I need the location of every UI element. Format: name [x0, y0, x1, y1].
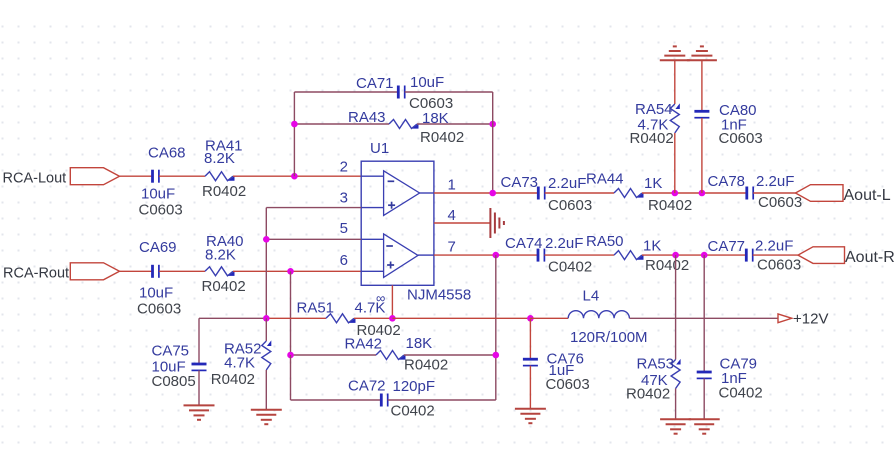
junction RA43 left [291, 121, 298, 128]
junction RA42 right [493, 352, 500, 359]
wire CA79 stem lower [703, 378, 705, 419]
wire pin1 stub inside U1 [420, 192, 434, 194]
svg-text:120R/100M: 120R/100M [570, 329, 648, 346]
ground below RA53 [660, 419, 691, 433]
svg-text:R0402: R0402 [202, 278, 246, 295]
capacitor CA71 [398, 86, 404, 99]
wire pin1 to CA73 [434, 192, 538, 194]
resistor RA54 [670, 103, 680, 133]
wire RA44 to CA78 [642, 192, 747, 194]
op-amp U1 triangle A [384, 171, 420, 216]
svg-text:1K: 1K [643, 237, 661, 254]
svg-text:10uF: 10uF [141, 186, 175, 203]
junction pin6 node [287, 268, 294, 275]
ground above CA80 [687, 46, 717, 60]
wire CA72 row right [388, 399, 496, 401]
svg-text:R0402: R0402 [404, 357, 448, 374]
junction pin7 feedback [493, 252, 500, 259]
wire RA52 bottom [265, 370, 267, 410]
wire CA74 to RA50 [544, 254, 614, 256]
svg-text:C0603: C0603 [139, 202, 183, 219]
capacitor CA75 [192, 364, 207, 370]
wire CA73 to RA44 [545, 192, 614, 194]
svg-text:120pF: 120pF [393, 378, 436, 395]
svg-text:C0402: C0402 [548, 259, 592, 276]
junction pin2 node [291, 173, 298, 180]
junction CA79 node [701, 252, 708, 259]
wire pin7 feedback vertical [495, 255, 497, 400]
svg-text:C0402: C0402 [391, 403, 435, 420]
ground at pin4 [490, 208, 504, 238]
svg-text:U1: U1 [370, 140, 389, 157]
capacitor CA69 [153, 265, 159, 278]
svg-text:R0402: R0402 [357, 322, 401, 339]
svg-text:R0402: R0402 [648, 197, 692, 214]
wire CA80 stem upper [701, 60, 703, 111]
wire rail to CA76 node [392, 317, 530, 319]
wire RA52 top [265, 318, 267, 341]
svg-text:4.7K: 4.7K [355, 300, 386, 317]
wire CA71 top left [294, 91, 398, 93]
junction pin3/5 bias node [263, 315, 270, 322]
wire CA79 stem upper [703, 255, 705, 372]
svg-text:CA74: CA74 [505, 235, 543, 252]
svg-text:RA50: RA50 [586, 233, 624, 250]
svg-text:C0603: C0603 [548, 197, 592, 214]
svg-text:CA72: CA72 [348, 378, 386, 395]
junction pin5 node [263, 236, 270, 243]
wire node to U1 pin6 [291, 270, 362, 272]
svg-text:Aout-L: Aout-L [844, 187, 891, 204]
svg-text:Aout-R: Aout-R [845, 249, 894, 266]
svg-text:R0402: R0402 [626, 386, 670, 403]
capacitor CA73 [538, 187, 544, 200]
junction RA43 right [489, 121, 496, 128]
wire RA42 row left [291, 354, 377, 356]
port RCA-Rout [70, 263, 119, 280]
resistor RA51 [326, 314, 356, 323]
capacitor CA78 [747, 187, 753, 200]
svg-text:8.2K: 8.2K [205, 247, 236, 264]
wire CA71 top right [405, 91, 493, 93]
svg-text:NJM4558: NJM4558 [407, 287, 471, 304]
wire pin4 to ground [434, 222, 491, 224]
svg-text:C0603: C0603 [758, 194, 802, 211]
wire rail to RA51 [266, 317, 326, 319]
svg-text:1: 1 [448, 177, 456, 194]
wire left vertical of feedback loop [293, 92, 295, 176]
svg-text:10uF: 10uF [139, 285, 173, 302]
svg-text:C0603: C0603 [137, 301, 181, 318]
wire pin8 down to rail [391, 285, 393, 318]
svg-text:CA78: CA78 [708, 173, 746, 190]
svg-text:2.2uF: 2.2uF [755, 238, 793, 255]
wire CA77 to Aout-R [753, 254, 798, 256]
svg-text:2.2uF: 2.2uF [756, 173, 794, 190]
port Aout-R [798, 247, 845, 264]
svg-text:CA71: CA71 [356, 75, 394, 92]
svg-text:10uF: 10uF [410, 74, 444, 91]
svg-text:7: 7 [448, 239, 456, 256]
junction CA76 node [527, 315, 534, 322]
wire right vertical of feedback loop [492, 92, 494, 193]
svg-text:2.2uF: 2.2uF [548, 175, 586, 192]
ground below CA75 [184, 405, 215, 419]
junction RA53 node [672, 252, 679, 259]
svg-text:R0402: R0402 [630, 130, 674, 147]
svg-text:RA51: RA51 [297, 300, 335, 317]
svg-text:C0603: C0603 [719, 130, 763, 147]
wire RA50 to CA77 [642, 254, 746, 256]
resistor RA41 [205, 172, 235, 181]
svg-text:C0402: C0402 [719, 385, 763, 402]
ground below CA79 [689, 419, 720, 433]
svg-text:R0402: R0402 [202, 183, 246, 200]
wire CA72 row left [291, 399, 382, 401]
wire RCA-Rout to CA69 [120, 270, 153, 272]
resistor RA42 [376, 351, 406, 360]
wire RA54 stem upper [674, 60, 676, 104]
svg-text:C0805: C0805 [152, 373, 196, 390]
ground below RA52 [251, 410, 282, 424]
power arrow +12V [778, 314, 792, 323]
capacitor CA79 [697, 372, 712, 378]
wire pin6 loop vertical [290, 355, 292, 400]
svg-text:3: 3 [340, 190, 348, 207]
capacitor CA68 [153, 170, 159, 183]
wire pin5 stub inside U1 [361, 238, 383, 240]
wire L4 to +12V arrow [629, 317, 778, 319]
resistor RA52 [262, 340, 272, 370]
ground below CA76 [515, 409, 546, 423]
wire RA43 row left [294, 123, 389, 125]
wire pin6 vertical down [290, 271, 292, 355]
wire RA54 stem lower [674, 133, 676, 193]
wire pin3 to left [266, 207, 361, 209]
svg-text:CA73: CA73 [501, 174, 539, 191]
ground above RA54 [660, 46, 690, 60]
wire RA40 to node [233, 270, 291, 272]
capacitor CA72 [381, 394, 387, 407]
svg-text:CA75: CA75 [152, 343, 190, 360]
wire pin7 stub inside U1 [418, 254, 434, 256]
svg-text:R0402: R0402 [645, 257, 689, 274]
svg-text:RA43: RA43 [348, 109, 386, 126]
svg-text:4: 4 [448, 207, 456, 224]
junction pin8 rail [389, 315, 396, 322]
wire node to U1 pin2 [294, 175, 361, 177]
resistor RA50 [614, 251, 644, 260]
wire pin5 to left [266, 238, 361, 240]
wire RA41 to node [233, 175, 294, 177]
svg-text:2.2uF: 2.2uF [545, 235, 583, 252]
svg-text:8.2K: 8.2K [204, 150, 235, 167]
svg-text:C0603: C0603 [546, 376, 590, 393]
svg-text:18K: 18K [422, 110, 449, 127]
wire RA43 row right [417, 123, 493, 125]
resistor RA53 [671, 359, 681, 389]
svg-text:RCA-Lout: RCA-Lout [3, 171, 67, 187]
wire RA42 row right [404, 354, 496, 356]
svg-text:18K: 18K [406, 335, 433, 352]
op-amp U1 triangle B [384, 234, 418, 278]
wire RCA-Lout to CA68 [120, 175, 153, 177]
resistor RA44 [614, 189, 644, 198]
wire pin3 stub inside U1 [361, 207, 383, 209]
junction pin1 feedback [489, 190, 496, 197]
junction CA80 node [699, 190, 706, 197]
wire CA76 vertical [529, 318, 531, 359]
inductor L4 [568, 311, 629, 319]
svg-text:+12V: +12V [793, 311, 828, 328]
resistor RA40 [205, 267, 235, 276]
port Aout-L [796, 185, 844, 202]
port RCA-Lout [70, 168, 119, 185]
junction RA42 left [287, 352, 294, 359]
wire CA68 to RA41 [159, 175, 205, 177]
wire RA53 stem lower [675, 389, 677, 420]
svg-text:2: 2 [340, 159, 348, 176]
svg-text:L4: L4 [583, 288, 600, 305]
wire rail to L4 [530, 317, 568, 319]
svg-text:RA53: RA53 [637, 356, 675, 373]
svg-text:4.7K: 4.7K [224, 355, 255, 372]
wire CA75 to ground [198, 370, 200, 405]
wire CA75 vertical [198, 318, 200, 364]
junction RA54 node [672, 190, 679, 197]
capacitor CA76 [523, 359, 538, 365]
svg-text:CA69: CA69 [139, 239, 177, 256]
wire rail left segment [199, 317, 266, 319]
wire CA69 to RA40 [159, 270, 205, 272]
svg-text:RA44: RA44 [586, 171, 624, 188]
wire RA53 stem upper [675, 255, 677, 359]
wire CA76 to ground [529, 366, 531, 409]
svg-text:CA68: CA68 [148, 145, 186, 162]
wire CA80 stem lower [701, 118, 703, 193]
capacitor CA77 [746, 249, 752, 262]
wire pin2 stub inside U1 [361, 175, 383, 177]
svg-text:RA54: RA54 [635, 101, 673, 118]
svg-text:R0402: R0402 [211, 371, 255, 388]
capacitor CA80 [694, 111, 709, 117]
svg-text:1K: 1K [644, 175, 662, 192]
wire RA51 to pin8 node [354, 317, 392, 319]
wire pin3 vertical down [265, 208, 267, 319]
capacitor CA74 [538, 249, 544, 262]
svg-text:RCA-Rout: RCA-Rout [3, 266, 69, 282]
op-amp U1 body [361, 161, 434, 285]
svg-text:6: 6 [340, 252, 348, 269]
svg-text:C0603: C0603 [757, 257, 801, 274]
svg-text:5: 5 [340, 220, 348, 237]
wire pin7 to CA74 [434, 254, 538, 256]
wire CA78 to Aout-L [753, 192, 795, 194]
svg-text:CA77: CA77 [708, 238, 746, 255]
resistor RA43 [389, 120, 419, 129]
wire pin6 stub inside U1 [361, 270, 383, 272]
svg-text:R0402: R0402 [420, 129, 464, 146]
